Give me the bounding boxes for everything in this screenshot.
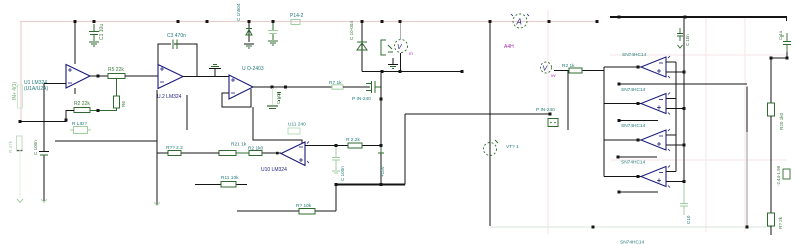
svg-text:SN74HC14: SN74HC14 bbox=[621, 160, 646, 166]
resistor R2 1k inline bbox=[569, 68, 582, 73]
svg-text:SN74HC14: SN74HC14 bbox=[621, 87, 646, 93]
inverter U4C bbox=[641, 130, 666, 150]
svg-text:U11 240: U11 240 bbox=[288, 122, 306, 128]
wire drop x362 with zener bbox=[361, 22, 363, 72]
svg-text:C 100n: C 100n bbox=[340, 166, 345, 181]
capacitor C4 100n at x44 bbox=[39, 152, 49, 156]
node dots y58 bbox=[770, 57, 789, 60]
voltmeter V2 purple bbox=[541, 62, 557, 78]
wire top rail pale bbox=[20, 22, 597, 122]
trimmer D3 box far right bbox=[783, 169, 790, 179]
svg-text:C 1u: C 1u bbox=[778, 30, 783, 40]
svg-text:R 47k: R 47k bbox=[8, 140, 13, 153]
capacitor C3 470n in feedback bbox=[171, 40, 177, 50]
svg-text:R21 1k: R21 1k bbox=[231, 142, 247, 148]
svg-text:SN74HC14: SN74HC14 bbox=[621, 123, 646, 129]
svg-text:U O-2403: U O-2403 bbox=[242, 66, 264, 72]
wire U3 out long bbox=[253, 86, 332, 88]
svg-text:R?? 2.2: R?? 2.2 bbox=[166, 145, 183, 151]
resistor R21 1k bbox=[219, 151, 236, 156]
svg-text:R5 22k: R5 22k bbox=[108, 67, 124, 73]
U4C wires bbox=[604, 135, 684, 145]
U4D pins bbox=[657, 166, 670, 188]
decoupling cap C9 x787 bbox=[780, 33, 791, 52]
svg-text:C 10n: C 10n bbox=[276, 91, 281, 104]
svg-text:C1 10u: C1 10u bbox=[99, 24, 105, 40]
svg-text:R 2.2k: R 2.2k bbox=[346, 137, 360, 143]
ground under V1 bbox=[388, 58, 398, 69]
node squares on stub bbox=[19, 119, 68, 124]
svg-text:m: m bbox=[409, 51, 413, 56]
wire y211 bbox=[237, 210, 336, 212]
wire y114 mid bbox=[405, 113, 550, 115]
ground for C1 bbox=[89, 42, 99, 46]
inverter U4B bbox=[641, 94, 666, 114]
svg-text:C 10n: C 10n bbox=[685, 34, 690, 46]
connector J2 green bbox=[548, 119, 558, 127]
U2A pin marks bbox=[160, 67, 164, 82]
bus right x676 bbox=[675, 62, 677, 172]
svg-text:SN74HC14: SN74HC14 bbox=[620, 240, 645, 244]
wire x568 drop bbox=[567, 71, 569, 131]
capacitor C5 series bbox=[366, 81, 381, 93]
wire y71 mid bbox=[362, 71, 462, 73]
wire VCC drop x75 bbox=[74, 22, 76, 65]
U10 top feedback from U3 bbox=[253, 107, 302, 143]
U10 pin marks bbox=[299, 142, 309, 164]
optocoupler U5 bracket bbox=[381, 40, 393, 55]
faint zone lines right block bbox=[548, 10, 787, 234]
wire stub x187 bbox=[186, 95, 188, 130]
U4D wires bbox=[604, 172, 684, 182]
svg-text:R? 2k: R? 2k bbox=[778, 216, 783, 229]
node dot y114 end bbox=[549, 113, 552, 116]
inverter U4A bbox=[641, 57, 666, 77]
op-amp U2A bbox=[158, 65, 183, 89]
ground arrow x157 bbox=[154, 202, 160, 206]
wire C4 down bbox=[43, 156, 45, 202]
wire U2A out bbox=[183, 76, 229, 78]
resistor R13 2.2 bbox=[168, 151, 181, 156]
svg-text:vv: vv bbox=[551, 73, 556, 78]
diode D1 to ground at x249 bbox=[244, 23, 254, 48]
wire y184 bias bbox=[195, 184, 247, 186]
wire V2 to bus bbox=[554, 70, 604, 72]
resistor R15 vertical far right bbox=[768, 213, 775, 226]
op-amp U10 mirrored bbox=[281, 142, 305, 166]
svg-text:P IN-240: P IN-240 bbox=[352, 96, 371, 102]
U1A pin marks bbox=[68, 68, 72, 83]
resistor R6 vertical bbox=[114, 96, 120, 108]
U4D gnd stub bbox=[619, 191, 658, 193]
svg-text:C 100n: C 100n bbox=[33, 140, 38, 155]
U4B pins bbox=[657, 93, 670, 115]
svg-text:R20 1k0: R20 1k0 bbox=[779, 112, 784, 130]
node junction dots on top rail bbox=[74, 20, 599, 23]
cap C10 below U4D input bbox=[680, 183, 688, 215]
node dot x336 bbox=[335, 144, 338, 147]
node dot out U1A bbox=[97, 75, 100, 78]
bus left x604 bbox=[603, 67, 605, 177]
svg-text:R6: R6 bbox=[121, 101, 126, 107]
transistor VT1 dashed circle bbox=[484, 143, 497, 156]
svg-text:U.2 LM324: U.2 LM324 bbox=[157, 94, 182, 100]
wire x490 vertical long bbox=[489, 22, 491, 227]
wire U10 input right bbox=[305, 145, 381, 147]
cap C6 100n below node bbox=[332, 147, 340, 173]
svg-text:-2.44-1.98: -2.44-1.98 bbox=[776, 165, 781, 186]
U4A wires bbox=[604, 62, 684, 72]
svg-text:C 1n504: C 1n504 bbox=[236, 3, 241, 21]
resistor R9 2.2k inline bbox=[348, 143, 362, 148]
resistor R11 10k bbox=[221, 182, 236, 188]
wire far right x771 upper bbox=[770, 58, 772, 103]
resistor R2 22k bbox=[74, 108, 90, 113]
svg-text:P IN-240: P IN-240 bbox=[536, 107, 555, 113]
svg-text:C10: C10 bbox=[686, 215, 691, 224]
wire U1A out bbox=[90, 75, 108, 77]
wire between resistors bbox=[236, 152, 249, 154]
resistor R20 vertical far right bbox=[768, 103, 775, 116]
inverter U4D bbox=[641, 167, 666, 187]
U4B gnd stub bbox=[619, 120, 658, 122]
svg-text:(U1A/U2A): (U1A/U2A) bbox=[24, 86, 49, 92]
wire far right x771 mid bbox=[770, 116, 772, 213]
svg-text:A: A bbox=[516, 18, 522, 27]
power flag +15V below node x381 bbox=[378, 147, 384, 153]
svg-text:C 10-004: C 10-004 bbox=[349, 21, 354, 40]
U4A pins bbox=[657, 56, 670, 78]
decoupling cap C8 x680 bbox=[677, 28, 683, 48]
decoupling cap x272 under U3 out bbox=[267, 88, 281, 109]
resistor R12 10k bbox=[299, 209, 315, 215]
svg-text:C3 470n: C3 470n bbox=[167, 33, 186, 39]
wire R6 bottom bbox=[90, 108, 117, 111]
U3 pin marks bbox=[231, 78, 235, 93]
node dot x336 y184 bbox=[335, 183, 338, 186]
zener D2 on x362 bbox=[357, 42, 367, 50]
resistor R10 1k bbox=[249, 151, 262, 156]
svg-text:U10 LM324: U10 LM324 bbox=[261, 167, 287, 173]
node dot x747 y227 bbox=[746, 226, 749, 229]
wire x336 drop to y211 bbox=[335, 186, 337, 211]
wire VCC rail right thick bbox=[610, 16, 787, 18]
voltmeter V1 dashed circle bbox=[395, 40, 414, 57]
svg-text:+15V: +15V bbox=[380, 165, 385, 177]
wire y184 thick right bbox=[335, 184, 405, 186]
node dot U10 out bbox=[276, 152, 279, 155]
svg-text:R7 1k: R7 1k bbox=[329, 80, 342, 86]
wire to C5 bbox=[343, 86, 370, 88]
node dot U3 out bbox=[284, 86, 287, 89]
wire R2 left leg bbox=[20, 111, 74, 122]
op-amp U3 bbox=[229, 75, 253, 99]
svg-text:SN74HC14: SN74HC14 bbox=[622, 52, 647, 58]
resistor R1 47k vertical left bbox=[17, 136, 23, 151]
wire inv node down x157 bbox=[156, 90, 158, 205]
node dots on y71 bbox=[381, 70, 464, 73]
svg-text:P14-2: P14-2 bbox=[290, 13, 304, 19]
U4A gnd stub long bbox=[619, 83, 747, 85]
wire divider drop bbox=[116, 79, 118, 97]
node dot feedback bbox=[97, 109, 100, 112]
ground rail faint bottom right bbox=[490, 226, 771, 228]
wire x44 drop bbox=[43, 84, 45, 152]
op-amp U2A feedback loop bbox=[158, 44, 197, 76]
svg-text:VT? 1: VT? 1 bbox=[506, 144, 519, 150]
capacitor C1 10u at x94 bbox=[89, 24, 99, 41]
wire input to U1A bbox=[44, 83, 66, 85]
node dot x272 bbox=[271, 86, 274, 89]
resistor R5 22k bbox=[108, 74, 125, 79]
ground G3 above wire bbox=[209, 65, 221, 77]
resistor R7 inline pale bbox=[332, 85, 343, 89]
wire R5 to U2A bbox=[125, 75, 158, 77]
wire cap C9 to node bbox=[771, 52, 787, 58]
node dots x381 bbox=[380, 98, 383, 187]
node bus x381 vertical bbox=[380, 72, 382, 185]
sensor body light green bbox=[18, 85, 23, 108]
capacitor C2 to ground at x273 bbox=[268, 23, 278, 45]
wire U10 out chain y152.5 bbox=[262, 152, 281, 154]
U4C gnd stub bbox=[618, 156, 657, 158]
U4B wires bbox=[604, 99, 684, 109]
wire branch y141 bbox=[55, 140, 157, 142]
ammeter A1 dashed circle on top rail bbox=[511, 14, 529, 28]
svg-text:R2 1k0: R2 1k0 bbox=[248, 146, 264, 152]
node dots on VCC rail bbox=[618, 16, 687, 19]
svg-text:A4H: A4H bbox=[504, 44, 514, 50]
node dot x593 y227 bbox=[592, 226, 595, 229]
wire chain left to x157 bbox=[181, 152, 219, 154]
wire x747 drop bbox=[746, 87, 748, 133]
wire R13 to x157 bbox=[157, 152, 168, 154]
svg-text:R? 10k: R? 10k bbox=[296, 203, 312, 209]
svg-text:R11 10k: R11 10k bbox=[221, 175, 239, 181]
svg-text:R2 22k: R2 22k bbox=[74, 101, 90, 107]
U3 feedback loop bbox=[222, 89, 251, 107]
wire corner x405 down bbox=[404, 114, 406, 185]
U1A power pins bbox=[74, 88, 76, 94]
ground arrow C4 bbox=[41, 199, 47, 203]
ground arrow R1 bbox=[17, 150, 23, 203]
wire V1 stubs bbox=[400, 23, 402, 39]
U4C pins bbox=[657, 129, 670, 151]
bus input x684 bbox=[683, 18, 685, 182]
op-amp U1A bbox=[66, 65, 90, 89]
